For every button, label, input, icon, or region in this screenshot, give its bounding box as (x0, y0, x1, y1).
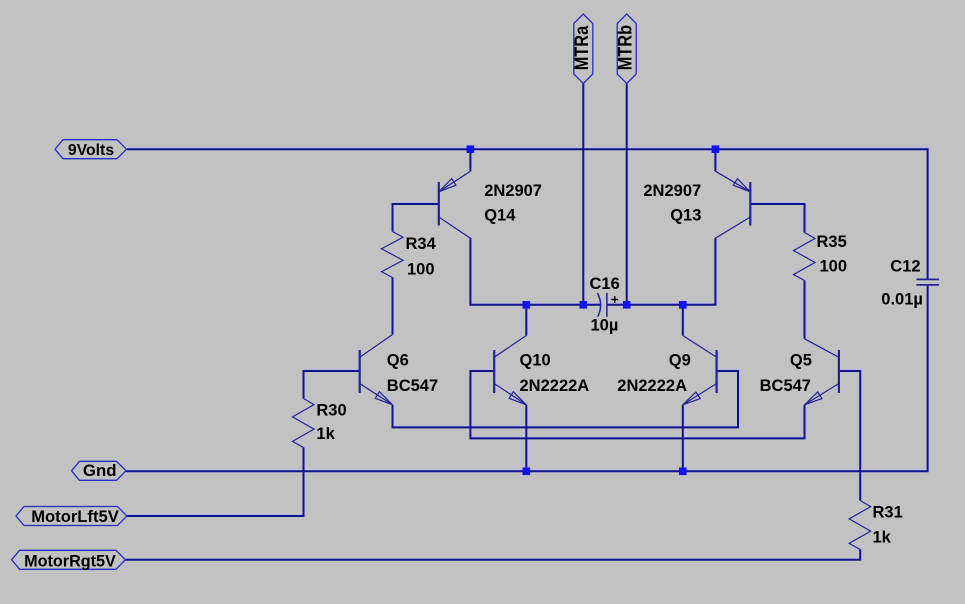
wire R31 bottom to MotorRgt5V (125, 550, 860, 560)
wire 9V top rail (127, 148, 928, 150)
wire right rail lower (C12 to Gnd) (927, 285, 929, 472)
svg-text:2N2907: 2N2907 (484, 182, 542, 200)
wire Q14 emitter vertical (469, 148, 471, 171)
wire R35 bottom to Q5 collector (804, 281, 806, 339)
net flag MTRb (617, 14, 636, 84)
wire Q13 collector to center rail right of C16 (607, 238, 716, 305)
svg-text:2N2222A: 2N2222A (617, 377, 687, 395)
svg-text:BC547: BC547 (387, 377, 438, 395)
junction center rail / Q10 collector (523, 301, 531, 309)
svg-text:MotorLft5V: MotorLft5V (31, 507, 119, 526)
transistor Q10 (NPN 2N2222A) (494, 336, 526, 405)
wire Q13 base to R35 top (751, 204, 805, 233)
svg-text:Q5: Q5 (790, 351, 812, 369)
transistor Q5 (NPN BC547) (805, 339, 839, 405)
wire Q9 collector vertical (682, 305, 684, 336)
wire Q10 collector vertical (525, 305, 527, 336)
resistor R35 (794, 233, 816, 281)
junction center rail / MTRa (580, 301, 588, 309)
resistor R34 (382, 232, 404, 278)
svg-text:C12: C12 (890, 257, 920, 275)
svg-text:R34: R34 (406, 235, 437, 253)
wire Gnd rail (126, 470, 928, 472)
svg-text:BC547: BC547 (760, 377, 811, 395)
net flag Gnd (72, 461, 127, 480)
svg-text:Q6: Q6 (387, 351, 409, 369)
wire Q14 collector to center rail left of C16 (470, 238, 601, 305)
wire R30 bottom to MotorLft5V (127, 448, 304, 517)
junction Gnd rail / Q10 emitter (523, 468, 531, 476)
junction center rail / MTRb (623, 301, 631, 309)
svg-text:Q14: Q14 (484, 206, 516, 224)
wire Q6 base to R30 top (304, 371, 360, 399)
svg-text:C16: C16 (590, 275, 620, 293)
transistor Q14 (PNP 2N2907) (439, 171, 471, 238)
svg-text:MTRb: MTRb (614, 25, 636, 70)
wire Q9 emitter vertical (682, 405, 684, 472)
junction 9V rail / Q13 emitter (712, 145, 720, 153)
junction Gnd rail / Q9 emitter (679, 468, 687, 476)
svg-text:R31: R31 (873, 504, 903, 522)
capacitor C16 (polarized 10u) (597, 293, 607, 317)
wire Q14 base to R34 top (393, 204, 439, 232)
wire Q5 base to R31 top (839, 371, 860, 501)
resistor R30 (293, 399, 315, 448)
svg-text:2N2222A: 2N2222A (520, 377, 590, 395)
svg-text:Q10: Q10 (520, 351, 551, 369)
junction 9V rail / Q14 emitter (467, 145, 475, 153)
net flag MotorLft5V (16, 507, 127, 526)
svg-text:1k: 1k (316, 425, 335, 443)
net flag MotorRgt5V (12, 550, 126, 569)
net flag 9Volts (55, 140, 127, 159)
svg-text:2N2907: 2N2907 (643, 182, 701, 200)
svg-text:R35: R35 (817, 233, 847, 251)
svg-text:Gnd: Gnd (83, 461, 117, 480)
transistor Q13 (PNP 2N2907) (715, 171, 750, 238)
wire Q10 base to Q5 emitter (470, 371, 804, 438)
wire Q10 emitter vertical (525, 405, 527, 472)
svg-text:R30: R30 (316, 401, 346, 419)
svg-text:1k: 1k (873, 529, 892, 547)
transistor Q9 (NPN 2N2222A) (683, 336, 717, 405)
junction center rail / Q9 collector (679, 301, 687, 309)
wire Q6 emitter to Q9 base (393, 371, 739, 427)
resistor R31 (849, 501, 871, 550)
wire right rail upper (9V to C12) (927, 148, 929, 279)
capacitor C12 (0.01u) (916, 279, 939, 285)
svg-text:9Volts: 9Volts (68, 142, 114, 159)
wire halo layer (light sheen above/right of wires) (126, 82, 929, 558)
wire MTRb vertical (626, 84, 628, 305)
C16 polarity plus sign (611, 296, 618, 303)
transistor Q6 (NPN BC547) (360, 335, 393, 405)
svg-text:MotorRgt5V: MotorRgt5V (24, 552, 116, 570)
wire MTRa vertical (582, 84, 584, 305)
svg-text:Q13: Q13 (670, 206, 701, 224)
wire Q13 emitter vertical (714, 148, 716, 171)
svg-text:10µ: 10µ (591, 317, 619, 335)
svg-text:MTRa: MTRa (571, 26, 593, 70)
net flag MTRa (574, 14, 593, 84)
wire R34 bottom to Q6 collector (392, 278, 394, 335)
svg-text:100: 100 (407, 260, 435, 278)
svg-text:Q9: Q9 (669, 351, 691, 369)
svg-text:0.01µ: 0.01µ (881, 291, 923, 309)
svg-text:100: 100 (820, 258, 848, 276)
